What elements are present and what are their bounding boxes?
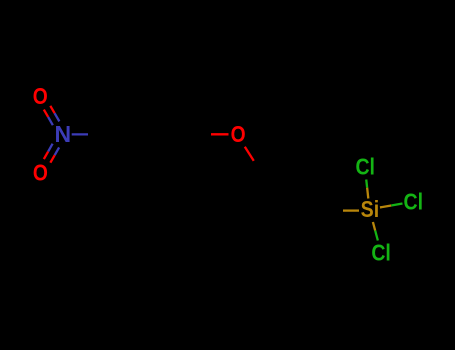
bond Si to Cl bottom (green half) (375, 231, 378, 241)
bond Si to Cl top (olive half) (367, 188, 368, 199)
svg-text:Cl: Cl (404, 189, 424, 215)
bond ring carbon to ether O (black half) (184, 133, 211, 135)
bond ring carbon to ether O (red half) (211, 133, 229, 135)
bond C3 to Si (olive half) (343, 209, 359, 211)
svg-text:Cl: Cl (371, 239, 391, 265)
nitro N=O top double bond (red half near O) (44, 106, 60, 125)
bond Si to Cl top (green half) (365, 179, 368, 187)
propyl chain C1-C2-C3 (black, invisible) (269, 187, 316, 210)
bond Si to Cl bottom (olive half) (373, 222, 375, 231)
bond C3 to Si (black half) (317, 209, 344, 211)
nitro N=O bottom double bond (red half near O) (44, 152, 48, 160)
svg-text:Si: Si (361, 196, 380, 222)
bond ether O to CH2 (red half) (245, 147, 254, 161)
svg-text:O: O (231, 121, 246, 147)
svg-text:Cl: Cl (355, 154, 375, 180)
bond N to ring carbon (black half) (88, 133, 114, 135)
benzene ring (carbon skeleton, black on black) (114, 104, 184, 165)
bond ether O to CH2 (black half) (254, 161, 270, 188)
bond Si to Cl right (olive half) (380, 205, 391, 207)
bond Si to Cl right (green half) (391, 203, 402, 205)
bond N to ring carbon (blue half) (72, 133, 88, 135)
svg-text:O: O (33, 83, 48, 109)
nitro N=O bottom double bond (blue half near N) (44, 144, 59, 163)
svg-text:O: O (33, 160, 48, 186)
svg-text:N: N (54, 121, 71, 147)
nitro N=O top double bond (blue half near N) (48, 117, 53, 125)
